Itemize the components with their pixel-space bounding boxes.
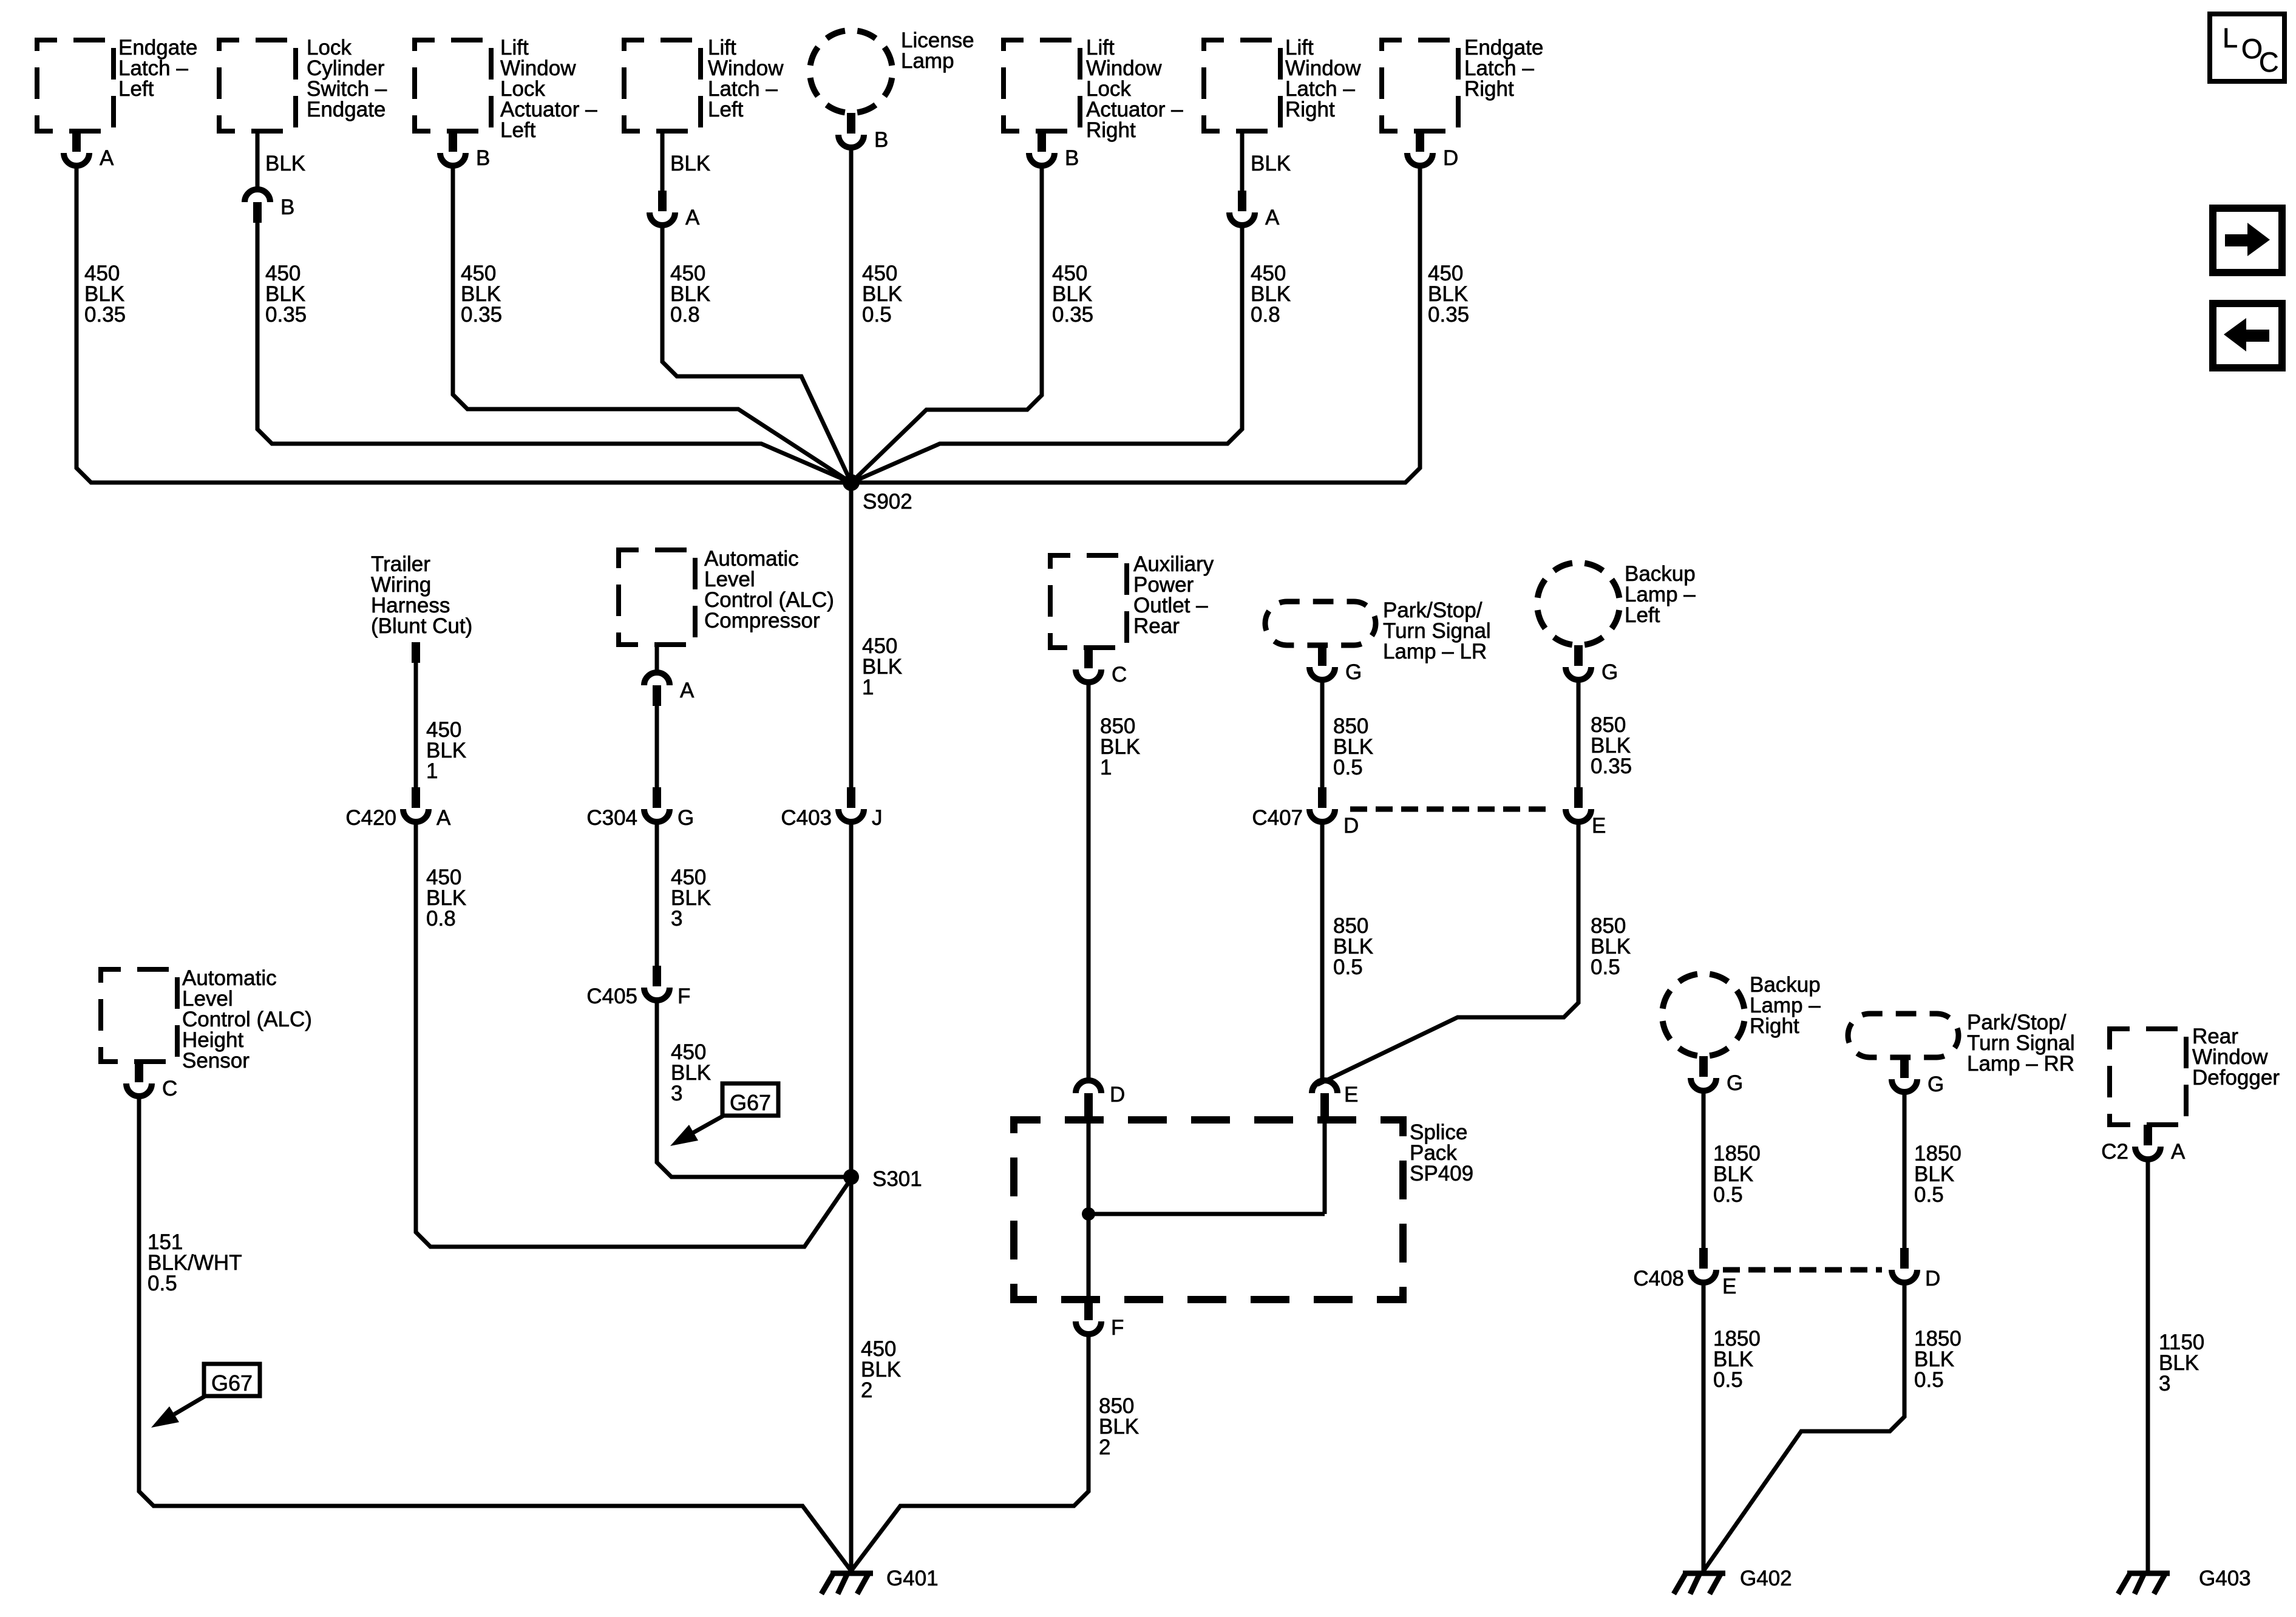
connector C405 pin F (586, 966, 690, 1008)
svg-text:G67: G67 (211, 1371, 253, 1395)
wire 850 BLK 0.5 (C407 E to SP409 pin E) (1317, 824, 1631, 1085)
component Backup Lamp - Left (1537, 562, 1696, 645)
component Rear Window Defogger (2110, 1025, 2280, 1125)
wire 450 BLK 1 (Trailer Harness to C420) (416, 663, 466, 787)
svg-text:0.35: 0.35 (1591, 754, 1632, 778)
connector C407 D-E dashed link (1350, 807, 1554, 812)
svg-text:0.5: 0.5 (1333, 756, 1363, 779)
svg-text:B: B (874, 128, 888, 152)
svg-text:S902: S902 (863, 490, 912, 514)
ground reference G67 (upper) (670, 1083, 778, 1146)
svg-text:D: D (1110, 1083, 1125, 1107)
svg-text:0.5: 0.5 (862, 303, 892, 327)
splice S902 (843, 474, 912, 514)
wire 450 BLK 0.8 (Lift Window Latch Left to S902) (662, 228, 851, 483)
component Park/Stop/Turn Signal Lamp - LR (1265, 598, 1491, 663)
svg-text:D: D (1925, 1267, 1940, 1290)
svg-text:Left: Left (500, 118, 536, 142)
wire 450 BLK 3 (C304 to C405) (657, 824, 711, 966)
wire 450 BLK 3 (C405 to S301) (657, 1003, 851, 1177)
connector C304 pin G (586, 787, 694, 830)
svg-text:Right: Right (1750, 1014, 1799, 1038)
wire 1850 BLK 0.5 (C408 E to G402) (1703, 1285, 1761, 1571)
svg-text:C403: C403 (781, 806, 832, 830)
connector C408 pin D (1892, 1248, 1940, 1290)
svg-text:0.35: 0.35 (84, 303, 126, 327)
svg-text:0.8: 0.8 (670, 303, 700, 327)
connector C407 pin E (1566, 787, 1606, 838)
wire 450 BLK 1 (S902 to C403) (851, 483, 902, 787)
wire 850 BLK 0.5 (C407 D to SP409 pin E) (1322, 824, 1373, 1080)
svg-text:1: 1 (426, 759, 438, 783)
wire 450 BLK 0.35 (Lock Cylinder Switch to S902) (257, 223, 851, 483)
svg-text:Right: Right (1464, 77, 1514, 101)
wire 850 BLK 2 (SP409 pin F to G401) (851, 1337, 1139, 1571)
svg-text:B: B (1065, 146, 1079, 170)
splice pack SP409 pin E (1312, 1080, 1358, 1123)
splice pack SP409 pin F (1076, 1300, 1124, 1340)
svg-text:B: B (280, 195, 294, 219)
svg-text:A: A (436, 806, 451, 830)
legend right-arrow box (2213, 208, 2282, 273)
ground G402 (1674, 1567, 1792, 1594)
wire 1850 BLK 0.5 (C408 D to G402) (1703, 1285, 1961, 1571)
svg-text:A: A (100, 146, 114, 170)
svg-text:Endgate: Endgate (307, 98, 385, 121)
svg-text:0.5: 0.5 (148, 1272, 177, 1295)
svg-text:0.5: 0.5 (1914, 1368, 1944, 1392)
svg-text:0.8: 0.8 (1251, 303, 1280, 327)
pin G Park/Stop RR (1892, 1057, 1944, 1096)
component Lift Window Lock Actuator - Right (1004, 36, 1183, 142)
pin A Lift Window Latch Left (650, 131, 710, 229)
LOC legend box (2210, 14, 2284, 81)
svg-text:F: F (678, 985, 690, 1008)
svg-text:0.5: 0.5 (1333, 955, 1363, 979)
svg-text:G401: G401 (886, 1567, 939, 1590)
svg-text:0.35: 0.35 (265, 303, 307, 327)
component Lift Window Latch - Left (624, 36, 784, 131)
svg-text:0.35: 0.35 (1428, 303, 1469, 327)
svg-text:1: 1 (862, 676, 874, 699)
svg-text:C: C (2259, 47, 2279, 78)
component Lift Window Lock Actuator - Left (415, 36, 597, 142)
svg-text:0.35: 0.35 (1052, 303, 1093, 327)
svg-text:C304: C304 (586, 806, 637, 830)
svg-text:2: 2 (861, 1378, 872, 1402)
svg-text:BLK: BLK (1251, 152, 1291, 175)
pin D Endgate Latch Right (1407, 131, 1458, 170)
component Automatic Level Control (ALC) Compressor (619, 547, 834, 645)
svg-text:B: B (476, 146, 490, 170)
svg-text:F: F (1111, 1316, 1124, 1340)
svg-text:Compressor: Compressor (704, 609, 820, 632)
component License Lamp (810, 29, 974, 113)
wire 1850 BLK 0.5 (Backup Lamp Right to C408) (1703, 1093, 1761, 1248)
connector C403 pin J (781, 787, 882, 830)
component Auxiliary Power Outlet - Rear (1050, 552, 1214, 648)
svg-text:C408: C408 (1633, 1267, 1684, 1290)
svg-text:G: G (678, 806, 694, 830)
pin A Endgate Latch Left (64, 131, 114, 170)
component Endgate Latch - Left (37, 36, 197, 131)
pin B Lift Window Lock Actuator Left (440, 131, 490, 170)
svg-text:A: A (2171, 1140, 2186, 1164)
svg-text:E: E (1344, 1083, 1358, 1107)
svg-text:3: 3 (2159, 1372, 2170, 1395)
svg-text:G403: G403 (2199, 1567, 2251, 1590)
svg-text:G: G (1601, 660, 1618, 684)
splice pack SP409 box (1014, 1120, 1473, 1300)
svg-text:0.35: 0.35 (461, 303, 502, 327)
connector C408 pin E (1633, 1248, 1736, 1298)
svg-text:G: G (1345, 660, 1362, 684)
pin G Backup Lamp Left (1566, 645, 1618, 684)
component Lift Window Latch - Right (1204, 36, 1361, 131)
svg-text:Sensor: Sensor (182, 1049, 250, 1073)
pin C Auxiliary Power Outlet (1076, 648, 1127, 686)
svg-text:L: L (2223, 22, 2238, 53)
svg-text:E: E (1722, 1275, 1736, 1298)
svg-text:3: 3 (671, 1082, 682, 1105)
svg-text:G: G (1927, 1073, 1944, 1096)
svg-text:0.5: 0.5 (1713, 1183, 1743, 1207)
wire inside SP409 (junction to pin E) (1089, 1119, 1325, 1214)
svg-text:C: C (1112, 663, 1127, 686)
wire 1150 BLK 3 (Defogger to G403) (2148, 1162, 2204, 1571)
wire 450 BLK 2 (C403 to G401) (851, 824, 901, 1571)
component Automatic Level Control (ALC) Height Sensor (101, 966, 312, 1073)
pin B License Lamp (838, 113, 888, 152)
svg-text:S301: S301 (872, 1167, 922, 1191)
wire 450 BLK 0.35 (Lift Window Lock Actuator Left to S902) (453, 166, 851, 483)
svg-text:D: D (1443, 146, 1458, 170)
svg-text:A: A (1265, 206, 1280, 229)
svg-text:Left: Left (1625, 603, 1660, 627)
pin A ALC Compressor (644, 645, 695, 706)
svg-text:SP409: SP409 (1410, 1162, 1473, 1185)
component Trailer Wiring Harness (Blunt Cut) (371, 552, 472, 663)
svg-text:0.8: 0.8 (426, 907, 456, 931)
ground G401 (821, 1567, 939, 1594)
ground reference G67 (lower) (151, 1364, 260, 1428)
svg-text:0.5: 0.5 (1713, 1368, 1743, 1392)
wire 850 BLK 1 (Aux Outlet to SP409 pin D) (1089, 685, 1140, 1080)
wire 1850 BLK 0.5 (Park/Stop RR to C408 D) (1904, 1094, 1961, 1248)
svg-text:G: G (1727, 1071, 1743, 1095)
wire (ALC Compressor to C304) (655, 706, 659, 787)
pin B Lift Window Lock Actuator Right (1029, 131, 1079, 170)
pin G Backup Lamp Right (1691, 1056, 1743, 1095)
wire 450 BLK 0.35 (Lift Window Lock Actuator Right to S902) (851, 166, 1093, 483)
pin A Lift Window Latch Right (1229, 131, 1291, 229)
wire 850 BLK 0.5 (Park/Stop LR to C407) (1322, 682, 1373, 787)
pin B Lock Cylinder Switch (245, 131, 305, 223)
connector C2 pin A (Rear Window Defogger) (2101, 1125, 2186, 1164)
svg-text:BLK: BLK (265, 152, 305, 175)
svg-text:A: A (680, 679, 695, 702)
svg-text:3: 3 (671, 907, 682, 931)
splice S301 (843, 1167, 922, 1191)
svg-text:0.5: 0.5 (1914, 1183, 1944, 1207)
legend left-arrow box (2213, 303, 2282, 368)
svg-text:C: C (162, 1077, 177, 1100)
pin G Park/Stop LR (1309, 645, 1362, 684)
svg-text:E: E (1592, 814, 1606, 838)
splice pack SP409 pin D (1076, 1080, 1125, 1123)
wire inside SP409 (D to F) (1087, 1119, 1091, 1300)
wire 450 BLK 0.8 (C420 to S301) (416, 824, 851, 1247)
wire 450 BLK 0.35 (Endgate Latch Right to S902) (851, 166, 1469, 483)
svg-text:C407: C407 (1252, 806, 1303, 830)
wire 850 BLK 0.35 (Backup Lamp Left to C407 E) (1578, 682, 1632, 787)
svg-text:C405: C405 (586, 985, 637, 1008)
svg-text:D: D (1343, 814, 1359, 838)
svg-text:Left: Left (118, 77, 154, 101)
component Backup Lamp - Right (1662, 973, 1821, 1056)
connector C407 pin D (1252, 787, 1359, 838)
svg-text:G402: G402 (1740, 1567, 1792, 1590)
pin C ALC Height Sensor (126, 1062, 177, 1100)
component Lock Cylinder Switch - Endgate (219, 36, 387, 131)
connector C408 E-D dashed link (1723, 1267, 1882, 1273)
junction inside SP409 (1082, 1207, 1095, 1221)
wire 450 BLK 0.8 (Lift Window Latch Right to S902) (851, 228, 1291, 483)
svg-text:Right: Right (1285, 98, 1335, 121)
svg-text:2: 2 (1099, 1436, 1110, 1459)
svg-text:Lamp: Lamp (901, 49, 954, 73)
svg-text:Right: Right (1086, 118, 1136, 142)
svg-text:Rear: Rear (1133, 614, 1180, 638)
component Endgate Latch - Right (1382, 36, 1543, 131)
component Park/Stop/Turn Signal Lamp - RR (1848, 1011, 2075, 1076)
svg-text:C2: C2 (2101, 1140, 2128, 1164)
svg-text:Lamp – LR: Lamp – LR (1383, 640, 1487, 663)
svg-text:BLK: BLK (670, 152, 710, 175)
svg-text:J: J (872, 806, 883, 830)
connector C420 pin A (345, 787, 451, 830)
svg-text:Lamp – RR: Lamp – RR (1967, 1052, 2074, 1076)
wire 450 BLK 0.5 (License Lamp to S902) (851, 150, 902, 483)
svg-text:Left: Left (708, 98, 744, 121)
svg-text:0.5: 0.5 (1591, 955, 1620, 979)
ground G403 (2118, 1567, 2251, 1594)
svg-text:A: A (685, 206, 700, 229)
svg-text:G67: G67 (730, 1090, 771, 1115)
wire 450 BLK 0.35 (Endgate Latch Left to S902) (76, 166, 851, 483)
svg-text:C420: C420 (345, 806, 396, 830)
wire 151 BLK/WHT 0.5 (Height Sensor to G401) (139, 1099, 851, 1571)
svg-text:(Blunt Cut): (Blunt Cut) (371, 614, 472, 638)
svg-text:1: 1 (1100, 756, 1112, 779)
svg-text:Defogger: Defogger (2192, 1066, 2280, 1090)
